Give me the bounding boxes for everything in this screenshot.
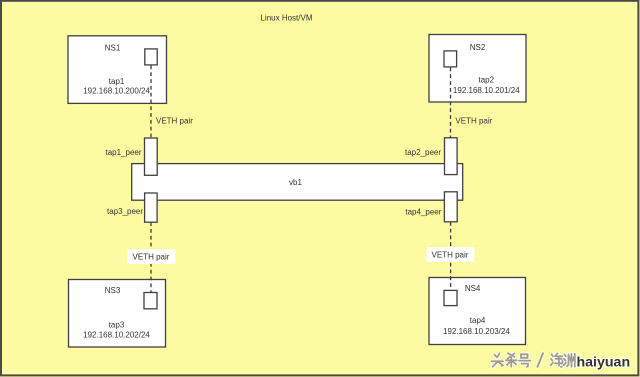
wire veth NS1-tap1_peer	[150, 66, 152, 139]
svg-text:tap2: tap2	[479, 75, 495, 84]
wire veth NS2-tap2_peer	[450, 68, 452, 138]
port tap2 (NS2)	[444, 51, 457, 67]
svg-text:haiyuan: haiyuan	[577, 355, 631, 371]
svg-text:tap4_peer: tap4_peer	[405, 208, 441, 217]
svg-text:Linux Host/VM: Linux Host/VM	[260, 13, 312, 22]
wire veth tap3_peer-NS3	[150, 222, 152, 292]
glyph 条	[506, 353, 517, 367]
svg-text:VETH pair: VETH pair	[455, 117, 492, 126]
label tap1_peer	[105, 148, 141, 157]
port tap3_peer	[145, 193, 158, 222]
svg-text:tap2_peer: tap2_peer	[405, 148, 441, 157]
glyph 头	[492, 353, 504, 367]
port tap4 (NS4)	[444, 290, 457, 305]
svg-text:tap3_peer: tap3_peer	[107, 207, 143, 216]
glyph 号	[519, 354, 531, 367]
label tap2_peer	[405, 148, 441, 157]
port tap1 (NS1)	[145, 49, 157, 65]
label VETH pair (top right)	[455, 117, 492, 126]
svg-text:VETH pair: VETH pair	[133, 253, 170, 262]
svg-text:tap1: tap1	[109, 77, 125, 86]
svg-text:NS3: NS3	[105, 286, 121, 295]
glyph 渊	[564, 354, 575, 367]
port tap3 (NS3)	[144, 293, 157, 309]
port tap2_peer	[445, 138, 458, 175]
title Linux Host/VM	[260, 13, 312, 22]
svg-text:vb1: vb1	[289, 178, 302, 187]
port tap1_peer	[145, 138, 158, 175]
svg-text:NS2: NS2	[470, 43, 486, 52]
label tap3_peer	[107, 207, 143, 216]
svg-text:192.168.10.201/24: 192.168.10.201/24	[453, 86, 520, 95]
svg-text:192.168.10.203/24: 192.168.10.203/24	[443, 327, 510, 336]
slash	[538, 353, 544, 367]
node NS3	[69, 280, 166, 348]
node NS1	[68, 36, 167, 104]
svg-text:NS1: NS1	[105, 43, 121, 52]
watermark 头条号 / 海渊haiyuan	[492, 353, 631, 370]
port tap4_peer	[444, 192, 457, 222]
svg-text:tap3: tap3	[109, 321, 125, 330]
svg-text:192.168.10.202/24: 192.168.10.202/24	[83, 331, 150, 340]
svg-text:192.168.10.200/24: 192.168.10.200/24	[83, 87, 150, 96]
wire veth tap4_peer-NS4	[450, 222, 452, 291]
svg-text:VETH pair: VETH pair	[432, 251, 469, 260]
svg-text:NS4: NS4	[465, 284, 481, 293]
latin haiyuan	[577, 355, 631, 371]
svg-text:tap1_peer: tap1_peer	[105, 148, 141, 157]
label VETH pair (bottom left)	[128, 249, 176, 264]
label tap4_peer	[405, 208, 441, 217]
svg-text:tap4: tap4	[470, 316, 486, 325]
node NS4	[429, 278, 526, 345]
glyph 海	[551, 353, 563, 367]
svg-text:VETH pair: VETH pair	[156, 117, 193, 126]
label VETH pair (top left)	[156, 117, 193, 126]
bridge vb1	[132, 164, 463, 201]
node NS2	[429, 35, 526, 103]
label VETH pair (bottom right)	[427, 247, 475, 262]
